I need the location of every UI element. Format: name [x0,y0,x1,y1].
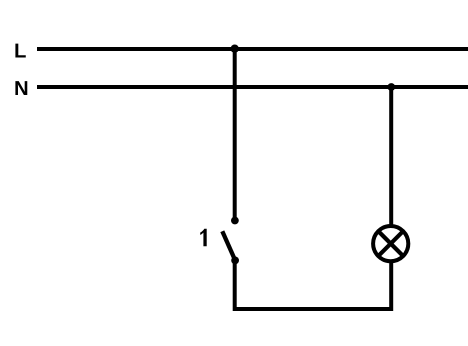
wire from L line down to switch [233,49,237,221]
switch S1 lever [222,231,235,260]
wire from N line down to lamp [389,87,393,227]
junction on L line [231,45,239,53]
lamp E1 cross stroke 1 [378,231,403,256]
net N label [15,81,27,95]
lamp E1 circle [373,226,408,261]
switch S1 top contact dot [231,217,239,225]
wire L line [37,47,468,51]
net L label [15,44,25,58]
switch S1 label 1 [200,229,207,247]
wire N line [37,85,468,89]
wire from switch down, along bottom, up to lamp [235,260,392,309]
junction on N line [387,83,395,91]
lamp E1 cross stroke 2 [378,231,403,256]
switch S1 bottom contact dot [231,257,239,265]
